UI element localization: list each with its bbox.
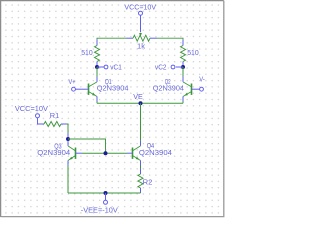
node VE junction — [139, 101, 143, 105]
wire vC1 to Q1 collector — [96, 67, 98, 77]
wire Q2 emitter down — [182, 102, 184, 104]
offpage connector V+ — [72, 87, 76, 91]
power bubble VCC (left) — [36, 114, 40, 118]
svg-text:V-: V- — [199, 74, 205, 83]
transistor Q4 — [133, 141, 141, 166]
svg-text:1k: 1k — [137, 42, 145, 51]
svg-text:VCC=10V: VCC=10V — [15, 104, 48, 113]
resistor R1 right pin — [61, 123, 67, 125]
svg-text:V+: V+ — [69, 77, 76, 86]
wire stub to VEE bubble — [105, 193, 107, 200]
wire Q3 base pin — [76, 152, 83, 154]
svg-text:VCC=10V: VCC=10V — [124, 2, 156, 11]
wire stub to vC1 bubble — [97, 66, 104, 68]
resistor R2 top pin — [140, 169, 142, 175]
power bubble -VEE — [104, 200, 108, 204]
power bubble VCC (top) — [139, 11, 143, 15]
wire base rail Q3 to Q4 — [82, 152, 127, 154]
wire segment into collector node — [67, 133, 69, 139]
svg-text:R2: R2 — [143, 178, 153, 187]
svg-text:Q2N3904: Q2N3904 — [37, 148, 70, 157]
potentiometer 1k body — [133, 35, 150, 41]
resistor 510 (right) body — [181, 46, 186, 62]
wire pot left to R-left top — [97, 38, 127, 39]
svg-text:VE: VE — [133, 92, 143, 101]
svg-text:vC1: vC1 — [110, 62, 122, 71]
svg-text:-VEE=-10V: -VEE=-10V — [81, 206, 118, 215]
svg-text:Q2N3904: Q2N3904 — [139, 148, 172, 157]
wire Q4 base pin — [127, 152, 133, 154]
potentiometer right pin — [150, 37, 157, 39]
node Q3 collector junction — [66, 137, 70, 141]
svg-text:510: 510 — [81, 48, 93, 57]
wire mirror link horizontal — [68, 139, 106, 153]
resistor 510 (right) bottom pin — [182, 62, 184, 68]
resistor 510 (left) top pin — [96, 40, 98, 46]
resistor 510 (left) body — [95, 46, 100, 62]
wire VCC bubble to potentiometer wiper — [140, 15, 142, 32]
resistor 510 (left) bottom pin — [96, 62, 98, 68]
R1 left pin from bubble — [38, 118, 45, 124]
svg-text:Q2N3904: Q2N3904 — [97, 83, 129, 92]
node vC2 junction — [181, 65, 185, 69]
node VEE junction — [104, 191, 108, 195]
svg-text:510: 510 — [187, 48, 199, 57]
transistor Q3 — [68, 141, 76, 166]
resistor R2 bottom pin — [140, 188, 142, 193]
wire Q4 emitter to R2 — [140, 166, 142, 169]
wire vC2 to Q2 collector — [182, 67, 184, 77]
wire bottom rail — [68, 192, 141, 194]
svg-text:vC2: vC2 — [155, 62, 167, 71]
wire Q1 emitter down — [96, 102, 98, 104]
transistor Q1 — [89, 77, 98, 102]
offpage connector V- — [200, 87, 204, 91]
resistor R1 body — [44, 122, 61, 127]
wire Q2 base to V- bubble — [192, 88, 200, 90]
offpage connector vC1 — [104, 65, 108, 69]
svg-text:R1: R1 — [50, 111, 60, 120]
potentiometer wiper arrow — [139, 33, 142, 37]
wire VE to Q4 collector — [140, 103, 142, 141]
wire Q3 emitter to bottom rail — [67, 166, 69, 194]
wire R1 to Q3 collector node — [67, 124, 69, 133]
resistor 510 (right) top pin — [182, 40, 184, 46]
wire stub to vC2 bubble — [176, 66, 183, 68]
node base rail junction — [104, 151, 108, 155]
potentiometer left pin — [127, 37, 134, 39]
wire VE rail — [97, 102, 183, 104]
svg-text:Q2N3904: Q2N3904 — [153, 84, 184, 93]
node vC1 junction — [95, 65, 99, 69]
transistor Q2 — [183, 77, 192, 102]
offpage connector vC2 — [171, 65, 175, 69]
wire pot right to R-right top — [157, 38, 183, 39]
wire V+ bubble to Q1 base — [75, 88, 88, 90]
resistor R2 body — [138, 174, 143, 188]
